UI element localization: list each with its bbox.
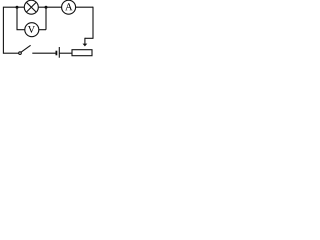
wire top-left segment: [3, 6, 24, 8]
wire lamp to ammeter: [38, 6, 61, 8]
wire bottom-left to switch: [3, 52, 18, 54]
wire switch to battery: [32, 52, 56, 54]
wire parallel branch left horizontal: [17, 29, 25, 31]
node junction left: [16, 6, 19, 9]
lamp L1: [24, 0, 38, 14]
wire parallel branch right horizontal: [39, 29, 46, 31]
wire battery to rheostat: [59, 52, 72, 54]
wire parallel branch left vertical: [16, 7, 18, 30]
node junction right: [45, 6, 48, 9]
wire right side down: [92, 7, 94, 39]
wire left side: [2, 7, 4, 54]
wire ammeter to top-right corner: [76, 6, 93, 8]
battery B1 short plate: [55, 51, 57, 56]
switch S1: [19, 45, 31, 54]
wire slider horizontal: [85, 37, 94, 39]
wire parallel branch right vertical: [45, 7, 47, 30]
ammeter A1: [62, 0, 76, 14]
rheostat R1 body: [72, 50, 92, 56]
wire slider vertical: [84, 38, 86, 44]
battery B1 long plate: [58, 47, 60, 58]
voltmeter V1: [25, 23, 39, 37]
rheostat slider arrowhead: [83, 44, 88, 47]
